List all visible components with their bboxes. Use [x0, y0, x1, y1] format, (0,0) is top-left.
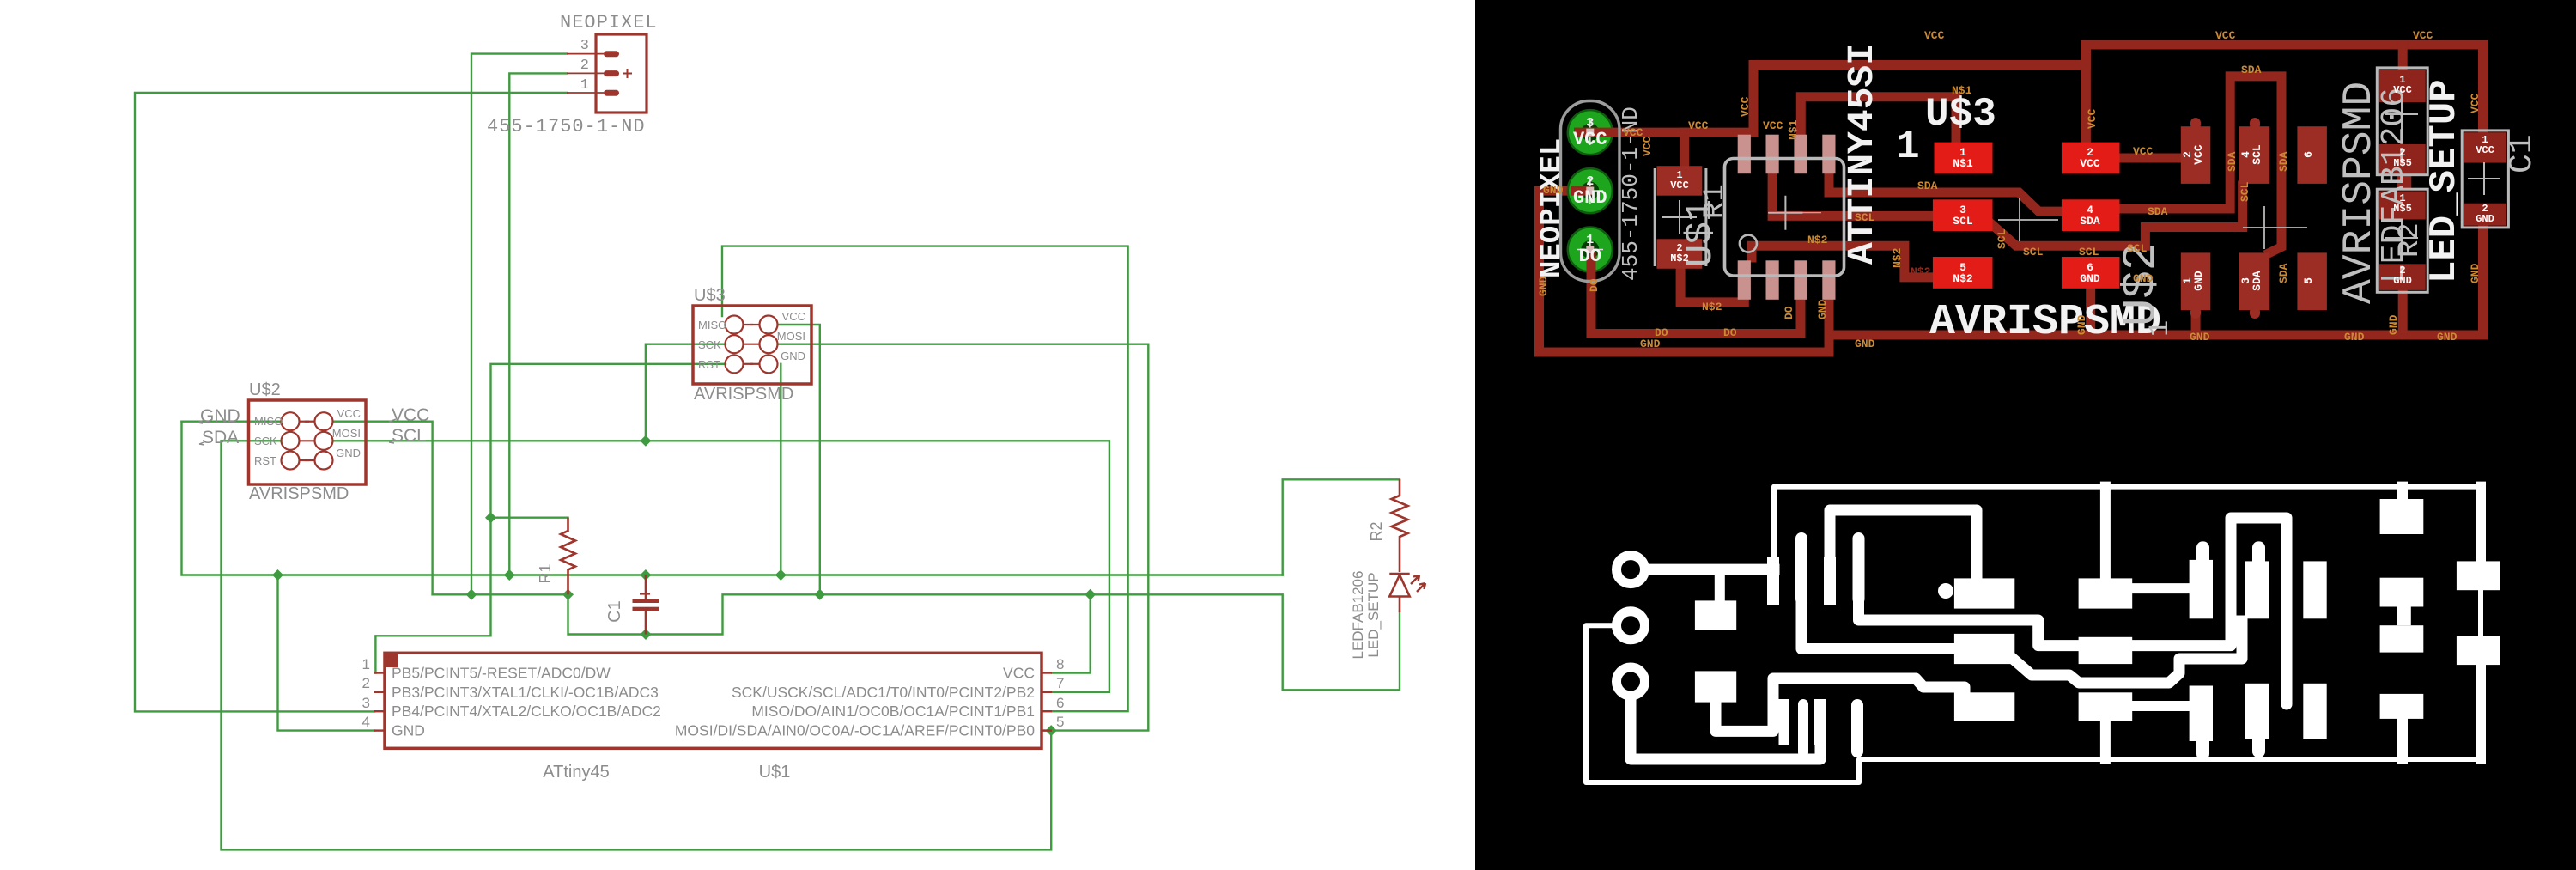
SCHEMATIC LEFT HALF — [135, 54, 1400, 850]
svg-text:SDA: SDA — [2277, 151, 2290, 172]
svg-text:LED_SETUP: LED_SETUP — [2423, 79, 2466, 283]
header U$2 AVRISPSMD — [249, 380, 367, 503]
pad U$3 2 VCC — [2062, 143, 2120, 174]
wire net SCL long — [334, 441, 1109, 692]
wire GND branch to ATtiny pin4 — [278, 575, 375, 731]
silk U$2 cross — [2243, 206, 2307, 249]
silk R2 outline — [2377, 68, 2427, 175]
svg-text:GND: GND — [781, 350, 805, 362]
pin 2 stub — [567, 72, 604, 74]
svg-text:VCC: VCC — [1688, 119, 1709, 132]
silk C1 outline — [2462, 131, 2508, 228]
svg-text:SDA: SDA — [202, 428, 239, 447]
wire net SDA left — [222, 441, 1052, 849]
svg-text:VCC: VCC — [782, 310, 805, 323]
pad labels R1 — [1670, 169, 1689, 265]
svg-text:SCL: SCL — [1953, 215, 1973, 228]
svg-text:GND: GND — [200, 406, 240, 426]
junction GND-pin4 — [272, 569, 283, 581]
trace GND over pad2 — [1571, 186, 1593, 196]
white SOIC top pads — [1695, 499, 2500, 760]
svg-text:DO: DO — [1579, 246, 1601, 267]
svg-text:6: 6 — [1056, 695, 1064, 711]
svg-text:RST: RST — [254, 454, 276, 467]
white R1 pads — [1695, 600, 1736, 630]
U$3 header bright pads — [1933, 143, 2120, 289]
wire NEOPIXEL pin2 to GND rail — [509, 73, 567, 575]
white trace SCL stepped — [2012, 621, 2242, 683]
svg-text:2: 2 — [580, 58, 589, 74]
svg-text:N$2: N$2 — [1702, 301, 1722, 313]
svg-text:N$1: N$1 — [1952, 84, 1972, 97]
orange net labels top view — [1537, 29, 2482, 350]
svg-text:VCC: VCC — [2476, 144, 2494, 156]
svg-text:NEOPIXEL: NEOPIXEL — [560, 12, 658, 33]
svg-text:SCL: SCL — [392, 426, 427, 446]
pad U$3 3 SCL — [1933, 199, 1993, 231]
wire U$3 VCC pin down to VCC rail — [778, 325, 820, 594]
pad U$2 6 — [2297, 126, 2327, 184]
svg-text:NEOPIXEL: NEOPIXEL — [1536, 138, 1569, 278]
svg-text:RST: RST — [698, 358, 720, 371]
svg-text:VCC: VCC — [1003, 665, 1035, 682]
svg-text:VCC: VCC — [1573, 129, 1607, 150]
connector NEOPIXEL 455-1750-1-ND — [487, 12, 658, 137]
svg-text:SCL: SCL — [2251, 144, 2263, 165]
svg-text:GND: GND — [2133, 272, 2154, 285]
silk R1 outline — [1655, 168, 1706, 266]
pad R2 1 VCC — [2379, 70, 2426, 102]
NEOPIXEL green pads — [1561, 101, 1620, 282]
svg-text:C1: C1 — [605, 600, 624, 623]
R1 pads — [1657, 166, 1703, 269]
svg-text:PB4/PCINT4/XTAL2/CLKO/OC1B/ADC: PB4/PCINT4/XTAL2/CLKO/OC1B/ADC2 — [392, 703, 661, 720]
svg-text:VCC: VCC — [1924, 29, 1945, 42]
wire U$3 MOSI to ATtiny pin5 — [778, 344, 1148, 731]
white U$3 pads — [1954, 578, 2014, 608]
white trace N$1 loop — [1830, 510, 1977, 582]
white trace VCC drop U$3 pad2 — [2100, 487, 2111, 584]
pad U$3 1 N$1 — [1935, 143, 1993, 174]
svg-text:SDA: SDA — [2251, 271, 2263, 291]
svg-text:GND: GND — [2075, 314, 2088, 335]
pad number labels U$3 — [1953, 146, 2100, 285]
svg-text:4: 4 — [362, 714, 370, 730]
svg-text:GND: GND — [392, 722, 425, 739]
resistor R2 — [1368, 479, 1408, 572]
silk SOIC outline — [1725, 159, 1844, 277]
svg-text:R1: R1 — [537, 563, 554, 583]
pad U$2 3 SDA — [2239, 252, 2269, 310]
svg-text:3: 3 — [580, 38, 589, 54]
trace N$2 from R1 pad2 — [1680, 265, 1744, 302]
white trace border outline — [1586, 487, 2481, 782]
trace N$2 to U$3 pad5 — [1752, 246, 1936, 277]
svg-text:AVRISPSMD: AVRISPSMD — [249, 484, 349, 503]
white C1 pads — [2457, 561, 2500, 590]
svg-text:GND: GND — [2387, 314, 2400, 335]
junction RST-R1 — [485, 512, 496, 523]
junction VCC-R1 — [562, 589, 574, 600]
U$2 header pads — [2181, 118, 2327, 319]
svg-text:GND: GND — [2393, 275, 2412, 287]
svg-text:SCK: SCK — [698, 338, 721, 351]
svg-text:GND: GND — [1816, 299, 1829, 319]
PCB PANEL BLACK BACKGROUND — [1475, 0, 2576, 870]
svg-text:VCC: VCC — [2393, 84, 2412, 96]
svg-text:GND: GND — [2437, 331, 2458, 344]
pad LED2 1 N$5 — [2379, 192, 2426, 220]
header U$3 AVRISPSMD — [693, 286, 811, 404]
wire R1 top to RST net — [491, 517, 568, 519]
svg-text:MISO: MISO — [698, 319, 726, 332]
svg-text:ATtiny45: ATtiny45 — [543, 763, 609, 782]
svg-text:DO: DO — [1783, 306, 1795, 319]
svg-text:VCC: VCC — [2413, 29, 2433, 42]
svg-text:GND: GND — [336, 447, 361, 459]
junction SDA-pin5 — [1046, 725, 1057, 736]
svg-text:MOSI/DI/SDA/AIN0/OC0A/-OC1A/AR: MOSI/DI/SDA/AIN0/OC0A/-OC1A/AREF/PCINT0/… — [675, 722, 1035, 739]
pin 1 stub — [567, 92, 604, 94]
svg-text:LEDFAB1206: LEDFAB1206 — [1350, 570, 1366, 659]
white trace C1 stub up — [2476, 487, 2486, 564]
junction dots — [272, 435, 1096, 736]
wire NEOPIXEL pin3 to VCC rail — [471, 54, 567, 595]
svg-text:GND: GND — [2192, 271, 2205, 291]
svg-text:5: 5 — [1056, 714, 1064, 730]
junction GND-neopixel2 — [504, 569, 515, 581]
junction SCL-U$3SCK — [640, 435, 651, 447]
pad number labels U$2 rotated — [2181, 144, 2315, 291]
white LED pads — [2380, 625, 2424, 652]
svg-text:PB3/PCINT3/XTAL1/CLKI/-OC1B/AD: PB3/PCINT3/XTAL1/CLKI/-OC1B/ADC3 — [392, 684, 659, 701]
white trace LED stub down — [2397, 715, 2408, 759]
svg-text:N$2: N$2 — [1807, 234, 1828, 246]
white U$2 pads — [2190, 560, 2213, 618]
svg-text:GND: GND — [2190, 331, 2210, 344]
trace VCC to R1 pad1 — [1680, 132, 1689, 172]
trace GND LED pad2 — [2398, 292, 2408, 335]
svg-text:VCC: VCC — [2080, 157, 2100, 170]
svg-text:R2: R2 — [1368, 521, 1385, 541]
wire U$2 VCC down to VCC rail — [334, 422, 433, 595]
trace DO over pad1 — [1587, 252, 1596, 273]
junction C1 bottom — [640, 629, 651, 640]
svg-text:VCC: VCC — [2192, 144, 2205, 165]
svg-text:SDA: SDA — [2241, 64, 2262, 76]
junction VCC-neopixel3 — [465, 589, 477, 600]
pad LED2 2 GND — [2379, 264, 2426, 290]
net label SDA — [199, 428, 239, 447]
svg-text:GND: GND — [1573, 187, 1607, 209]
LED LED1 LEDFAB1206 — [1350, 570, 1425, 659]
svg-text:N$5: N$5 — [2393, 157, 2412, 169]
pad U$2 5 — [2297, 252, 2327, 310]
svg-text:1: 1 — [362, 656, 370, 672]
white trace GND U$3 pad6 — [2100, 717, 2111, 759]
trace VCC R2 stub — [2398, 45, 2408, 73]
svg-text:3: 3 — [362, 695, 370, 711]
trace SCL stepped — [1993, 186, 2243, 246]
silk LED outline — [2377, 189, 2427, 292]
svg-text:U$3: U$3 — [1925, 92, 1996, 137]
svg-text:VCC: VCC — [2469, 93, 2482, 113]
white trace ring3 DO — [1631, 697, 1820, 759]
svg-text:ATTINY45SI: ATTINY45SI — [1841, 43, 1883, 265]
wire GND to U$2 MISO — [182, 421, 282, 423]
svg-text:VCC: VCC — [1739, 96, 1752, 117]
svg-text:GND: GND — [1543, 184, 1564, 197]
svg-text:VCC: VCC — [1763, 119, 1783, 132]
svg-text:MOSI: MOSI — [777, 330, 805, 343]
IC U$1 ATtiny45 — [362, 653, 1065, 782]
svg-text:DO: DO — [1723, 326, 1737, 339]
svg-text:R2: R2 — [2394, 222, 2427, 258]
pad U$2 1 GND — [2181, 252, 2211, 310]
trace GND rail right — [1829, 225, 2483, 335]
pad R2 2 N$5 — [2379, 144, 2426, 175]
white trace N$2 — [1716, 678, 1965, 731]
svg-text:N$5: N$5 — [2393, 203, 2412, 215]
svg-text:MISO: MISO — [254, 415, 283, 428]
trace VCC drop to U$3 pad2 — [2081, 45, 2091, 146]
white trace SCL from SOIC — [1801, 605, 1958, 649]
wire net GND rail — [182, 422, 1283, 575]
svg-text:1: 1 — [2144, 320, 2176, 337]
svg-text:1: 1 — [580, 77, 589, 94]
white trace U$3 pad6 to U$2 pad1 — [2129, 701, 2193, 711]
pad C1 2 GND — [2464, 204, 2506, 226]
white trace R2 stub up — [2397, 487, 2408, 502]
pad U$3 4 SDA — [2062, 199, 2120, 231]
svg-text:N$2: N$2 — [1670, 252, 1689, 265]
svg-text:GND: GND — [2476, 213, 2494, 225]
svg-text:7: 7 — [1056, 675, 1064, 691]
white trace C1 stub down — [2476, 661, 2486, 759]
SOIC pads U$1 ATTINY45SI — [1738, 135, 1836, 300]
trace DO — [1591, 244, 1801, 334]
trace GND U$2 pad1 — [2191, 305, 2201, 335]
junction VCC-pin8 — [1084, 589, 1096, 600]
svg-text:8: 8 — [1056, 656, 1064, 672]
trace N$1 loop — [1801, 97, 1956, 146]
net label SCL — [389, 426, 427, 446]
white trace SDA long — [1859, 605, 2079, 646]
svg-text:SCL: SCL — [2239, 181, 2251, 202]
pad R1 1 VCC — [1657, 166, 1703, 196]
trace SCL from SOIC — [1772, 172, 1936, 216]
pad U$3 6 GND — [2062, 257, 2120, 289]
pad C1 1 VCC — [2464, 132, 2506, 162]
svg-text:R1: R1 — [1699, 184, 1732, 219]
svg-text:MISO/DO/AIN1/OC0B/OC1A/PCINT1/: MISO/DO/AIN1/OC0B/OC1A/PCINT1/PB1 — [751, 703, 1035, 720]
wire U$3 MISO to ATtiny pin6 — [722, 246, 1128, 712]
resistor R1 — [537, 518, 575, 595]
svg-text:MOSI: MOSI — [332, 427, 361, 440]
pad labels R2 LED C1 — [2393, 74, 2494, 287]
svg-text:VCC: VCC — [2215, 29, 2236, 42]
white trace SDA pad4 to loop — [2129, 518, 2287, 704]
white trace U$3 pad2 to U$2 — [2129, 583, 2193, 593]
junction VCC-U$3 — [814, 589, 825, 600]
svg-text:U$2: U$2 — [249, 380, 281, 399]
svg-text:N$1: N$1 — [1953, 157, 1973, 170]
svg-text:C1: C1 — [2504, 134, 2541, 173]
junction GND-U$3 — [775, 569, 787, 581]
svg-text:2: 2 — [362, 675, 370, 691]
svg-text:LED_SETUP: LED_SETUP — [1365, 572, 1382, 657]
svg-text:U$1: U$1 — [759, 763, 791, 782]
svg-text:5: 5 — [2302, 277, 2315, 284]
svg-text:SDA: SDA — [2080, 215, 2100, 228]
svg-text:SDA: SDA — [2277, 263, 2290, 283]
net label GND — [197, 406, 240, 426]
svg-text:VCC: VCC — [392, 405, 429, 425]
trace GND bottom rail — [1540, 191, 1830, 352]
svg-text:VCC: VCC — [1641, 136, 1654, 156]
svg-text:N$2: N$2 — [1911, 265, 1931, 278]
capacitor C1 — [605, 575, 659, 635]
svg-text:SDA: SDA — [2226, 151, 2239, 172]
white SOIC bottom pads — [1779, 699, 1789, 745]
svg-text:N$2: N$2 — [1953, 272, 1973, 285]
wire NEOPIXEL pin1 to ATtiny pin3 — [135, 93, 567, 711]
svg-text:VCC: VCC — [337, 407, 361, 420]
white R2 pads — [2380, 499, 2424, 534]
trace VCC over pad3 — [1574, 128, 1614, 137]
svg-text:SCK: SCK — [254, 435, 277, 447]
svg-text:SCL: SCL — [1996, 228, 2008, 249]
svg-text:VCC: VCC — [1670, 179, 1689, 192]
svg-text:VCC: VCC — [2086, 108, 2099, 129]
pin 3 stub — [567, 53, 604, 55]
trace VCC top rail — [1584, 45, 2483, 137]
net label VCC — [389, 405, 429, 425]
silk U$3 cross — [1998, 198, 2058, 241]
svg-text:AVRISPSMD: AVRISPSMD — [694, 385, 793, 404]
svg-text:GND: GND — [2344, 331, 2365, 344]
white ring pads NEOPIXEL — [1617, 556, 1645, 696]
svg-text:DO: DO — [1588, 278, 1601, 292]
wire ATtiny pin8 VCC — [1052, 594, 1091, 672]
svg-text:GND: GND — [1537, 276, 1550, 296]
wire U$3 GND pin down to GND rail — [780, 364, 781, 575]
pad R1 2 N$2 — [1657, 239, 1703, 269]
svg-text:1: 1 — [1896, 125, 1920, 169]
svg-text:SCK/USCK/SCL/ADC1/T0/INT0/PCIN: SCK/USCK/SCL/ADC1/T0/INT0/PCINT2/PB2 — [732, 684, 1035, 701]
svg-text:U$3: U$3 — [694, 286, 726, 305]
svg-text:455-1750-1-ND: 455-1750-1-ND — [487, 116, 646, 137]
svg-text:GND: GND — [1855, 338, 1875, 350]
svg-text:SDA: SDA — [1917, 179, 1938, 192]
svg-text:GND: GND — [2080, 272, 2100, 285]
svg-text:GND: GND — [2469, 263, 2482, 283]
trace SDA from SOIC — [1829, 172, 2065, 211]
svg-text:SCL: SCL — [1855, 211, 1875, 224]
trace SDA right of U$3 pad4 — [2117, 76, 2281, 253]
trace VCC U$3 pad2 to U$2 pad2 — [2112, 154, 2196, 163]
pad U$2 4 SCL — [2239, 126, 2269, 184]
wire U$3 RST to ATtiny pin1 — [375, 364, 726, 673]
white trace ring1 to border — [1649, 564, 1774, 575]
svg-text:N$1: N$1 — [1787, 119, 1800, 140]
svg-text:DO: DO — [1655, 326, 1668, 339]
white trace ring1 pad stub — [1715, 569, 1725, 605]
R2 pads — [2379, 70, 2506, 290]
plus mark — [623, 69, 632, 78]
pad U$2 2 VCC — [2181, 126, 2211, 184]
svg-text:SCL: SCL — [2079, 246, 2099, 259]
junction GND-C1 — [640, 569, 651, 581]
big white texts top view — [1536, 43, 2541, 347]
trace GND U$3 pad6 — [2086, 283, 2095, 335]
svg-text:VCC: VCC — [2133, 145, 2154, 158]
wire VCC rail A — [433, 594, 1400, 690]
wire VCC rail to R2 top — [1283, 479, 1400, 575]
svg-text:SCL: SCL — [2023, 246, 2044, 259]
pad U$3 5 N$2 — [1933, 257, 1993, 289]
svg-text:6: 6 — [2302, 151, 2315, 158]
svg-text:SCL: SCL — [2127, 242, 2148, 255]
svg-text:SDA: SDA — [2148, 205, 2168, 218]
svg-text:PB5/PCINT5/-RESET/ADC0/DW: PB5/PCINT5/-RESET/ADC0/DW — [392, 665, 611, 682]
svg-text:N$2: N$2 — [1891, 247, 1904, 268]
svg-text:GND: GND — [1640, 338, 1661, 350]
wire U$3 SCK to SCL — [646, 344, 726, 441]
